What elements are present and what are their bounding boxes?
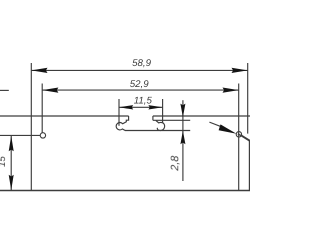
centerline of left hole — [0, 134, 40, 136]
arrowhead 2.8 top — [180, 104, 185, 118]
dimension line 15 vertical — [10, 136, 12, 191]
right hook step — [152, 116, 154, 120]
leader line segment inside circle — [238, 134, 242, 136]
step line B right of hook — [153, 119, 190, 121]
extension line left for 52.9 — [41, 84, 43, 133]
top surface line right segment — [153, 115, 250, 117]
svg-text:11,5: 11,5 — [134, 95, 153, 106]
svg-text:58,9: 58,9 — [132, 58, 151, 69]
right hole circle — [236, 132, 241, 137]
svg-text:2,8: 2,8 — [169, 156, 181, 172]
lower profile line C — [125, 130, 190, 132]
arrowhead 58.9 right — [232, 68, 248, 73]
top surface line left segment — [0, 115, 129, 117]
extension line left for 58.9 — [30, 63, 32, 191]
right edge short vertical — [248, 141, 250, 191]
leader line after circle — [241, 136, 250, 141]
arrowhead 15 bottom — [9, 175, 14, 191]
stub line at left edge — [0, 89, 9, 91]
bottom edge line — [0, 190, 250, 192]
leader line thin part — [209, 122, 222, 127]
dimension line 58.9 — [31, 69, 247, 71]
right vertical extension through hole to bottom corner — [238, 84, 240, 191]
arrowhead 58.9 left — [31, 68, 47, 73]
arrowhead 11.5 left — [119, 105, 133, 109]
dimension line 52.9 — [42, 89, 239, 91]
left hook profile — [116, 116, 128, 131]
dimension line 11.5 — [119, 106, 163, 108]
arrowhead 2.8 bottom — [180, 131, 185, 145]
arrowhead 11.5 right — [148, 105, 162, 109]
leader arrowhead — [219, 124, 237, 133]
arrowhead 52.9 left — [42, 88, 58, 93]
extension line right for 58.9 — [247, 63, 249, 134]
extension line right for 11.5 — [162, 99, 164, 122]
extension line left for 11.5 — [118, 99, 120, 126]
dimension line 2.8 vertical — [182, 100, 184, 181]
arrowhead 52.9 right — [223, 88, 239, 93]
right hook profile — [156, 121, 165, 131]
arrowhead 15 top — [9, 136, 14, 152]
svg-text:15: 15 — [0, 156, 8, 167]
svg-text:52,9: 52,9 — [130, 79, 149, 90]
left hole circle — [40, 133, 45, 138]
